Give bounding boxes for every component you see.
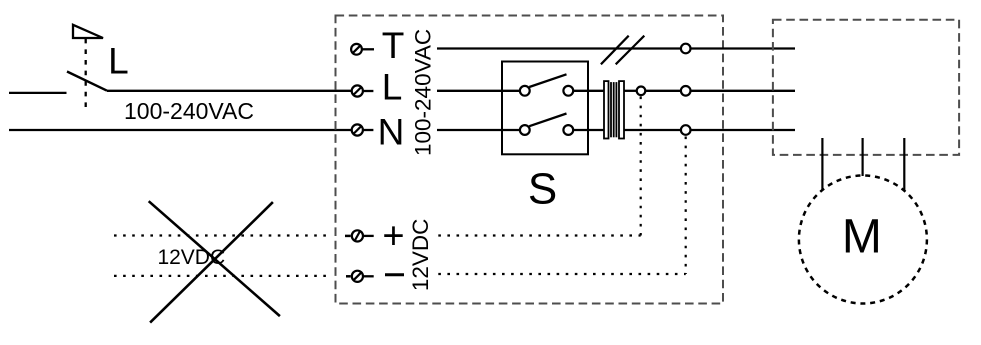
wire: N line input	[9, 129, 352, 131]
terminal label -	[385, 273, 404, 276]
wire: T line inside supply	[437, 47, 681, 49]
terminal N screw	[352, 124, 374, 135]
wire: N line to device	[691, 129, 796, 131]
switch SW1 actuator dashed link	[85, 39, 87, 109]
dotted wire: external 12VDC +	[114, 234, 332, 236]
node: L output	[681, 86, 691, 96]
svg-text:T: T	[382, 25, 405, 66]
node: T output	[681, 44, 691, 54]
dotted link: + to L tap	[438, 97, 640, 236]
switch S pole 1 (L)	[520, 74, 604, 95]
device enclosure (dashed box)	[773, 20, 959, 155]
wire: T line to device	[691, 47, 796, 49]
switch SW1 flag	[73, 25, 103, 38]
terminal + screw	[352, 230, 374, 241]
svg-text:L: L	[108, 41, 129, 82]
svg-text:100-240VAC: 100-240VAC	[124, 98, 254, 124]
dotted link: - to N output	[438, 137, 685, 275]
power supply enclosure (dashed box)	[336, 16, 724, 304]
cross-out mark line 2	[150, 202, 273, 323]
wire: L line to output node	[645, 90, 681, 92]
wire: motor lead 2	[861, 138, 863, 176]
wire: L line to device	[691, 90, 796, 92]
terminal L screw	[352, 85, 374, 96]
wire: - terminal stub	[346, 275, 351, 278]
svg-text:N: N	[378, 112, 405, 153]
svg-text:+: +	[382, 215, 404, 257]
connector J1 (plug/socket bars)	[604, 81, 624, 138]
wire: L line from switch to terminal	[107, 90, 352, 92]
node: N output	[681, 125, 691, 135]
svg-text:12VDC: 12VDC	[408, 219, 433, 292]
svg-text:S: S	[528, 165, 557, 214]
wire: + terminal stub	[345, 235, 351, 238]
svg-text:100-240VAC: 100-240VAC	[411, 29, 436, 156]
wire: motor lead 1	[821, 138, 823, 191]
terminal - screw	[352, 271, 374, 282]
switch SW1 blade	[67, 72, 107, 91]
cross-out mark line 1	[149, 201, 280, 316]
motor M (dotted circle)	[799, 176, 927, 304]
wire: N line to switch box	[437, 129, 520, 131]
dotted wire: external 12VDC -	[114, 275, 332, 277]
terminal T screw	[351, 44, 374, 55]
wire: L line after connector	[624, 90, 637, 92]
break marks on T line	[601, 36, 644, 65]
switch S pole 2 (N)	[520, 114, 604, 135]
svg-text:M: M	[842, 210, 882, 263]
wire: motor lead 3	[903, 138, 905, 191]
wire: mains L input stub	[9, 92, 67, 94]
node: L tap	[637, 87, 646, 96]
switch S box	[502, 62, 588, 155]
svg-text:L: L	[382, 67, 403, 108]
wire: N line after connector	[624, 129, 681, 131]
wire: L line to switch box	[437, 90, 520, 92]
